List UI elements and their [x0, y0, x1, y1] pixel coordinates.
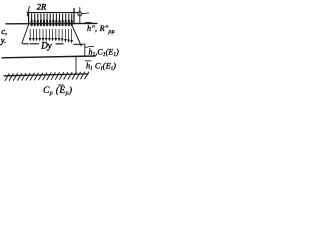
punch strip left edge [28, 12, 30, 24]
centerline symbol vertical [79, 8, 81, 24]
layer label h1 C1(E1) [89, 46, 120, 57]
punch strip hatch bars [32, 14, 72, 23]
layer label hi Ci(Ei) [85, 61, 116, 72]
leader dash left of h'' label [82, 12, 89, 15]
half-space label C_rho(E_rho) [43, 85, 72, 97]
ground line [4, 74, 88, 76]
hi thickness bracket vertical [75, 57, 77, 75]
svg-text:Cρ (Eρ): Cρ (Eρ) [43, 85, 72, 97]
right diagonal of spreading trapezoid [71, 24, 81, 47]
svg-text:Dy: Dy [40, 40, 52, 50]
load arrows row [29, 29, 73, 43]
svg-text:y.: y. [0, 35, 6, 45]
h1 thickness bracket vertical [84, 44, 86, 56]
dashed deflection line [23, 43, 83, 46]
surface line [6, 22, 97, 24]
left diagonal of spreading trapezoid [22, 24, 29, 44]
punch strip hatch bar feet [32, 21, 72, 26]
svg-text:2R: 2R [37, 2, 47, 12]
punch strip right edge [73, 9, 75, 24]
dimension line / strip top line [27, 12, 78, 14]
dimension left end tick [27, 7, 29, 16]
layer label h'' R''rho-mu [86, 23, 115, 36]
centerline symbol circle [78, 12, 82, 16]
ground hatch strokes [5, 72, 89, 81]
layer line 1 [2, 56, 95, 58]
